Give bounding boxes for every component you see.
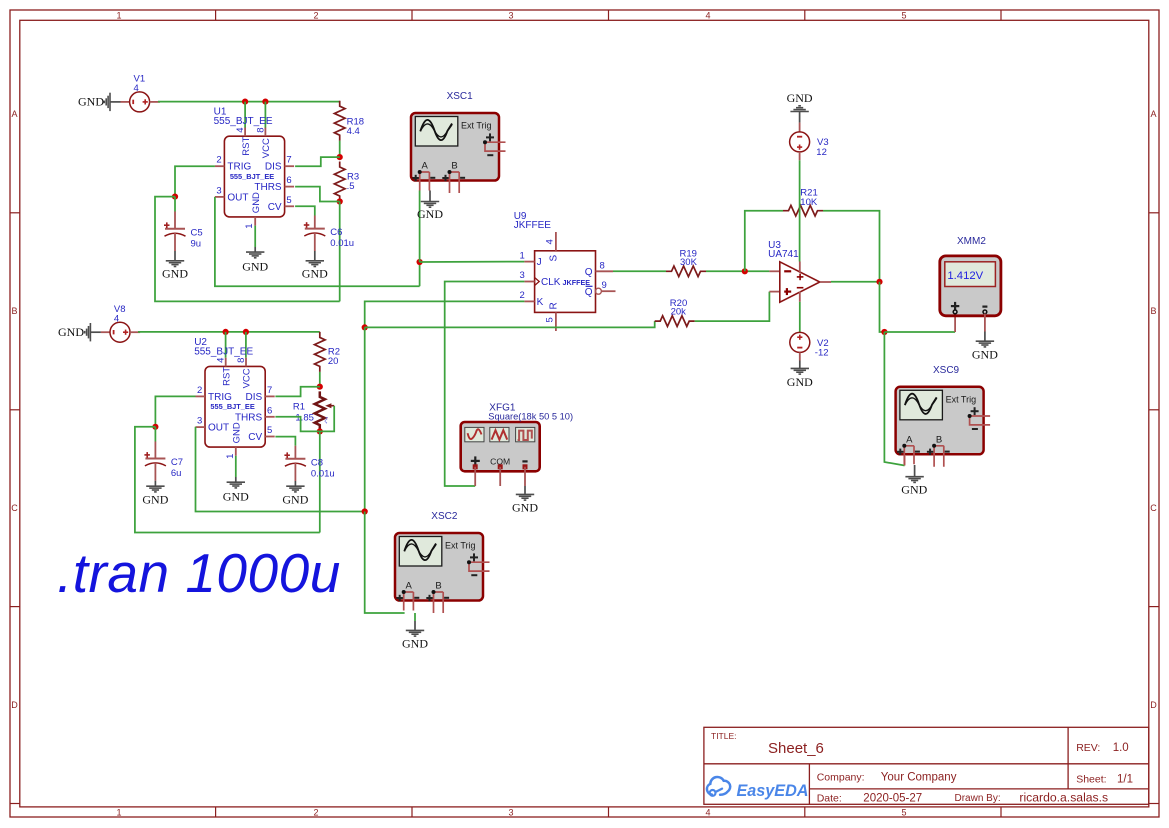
svg-text:1: 1	[116, 807, 121, 817]
wire XSC1 A- to ground	[429, 191, 431, 202]
junction output	[876, 279, 882, 285]
wire gnd stem U2	[235, 477, 237, 482]
wire CV to C6	[295, 206, 315, 215]
svg-text:1.412V: 1.412V	[947, 270, 983, 282]
resistor R21	[783, 205, 823, 216]
svg-text:555_BJT_EE: 555_BJT_EE	[194, 346, 253, 357]
svg-text:Q: Q	[585, 287, 593, 298]
svg-text:A: A	[406, 581, 413, 592]
svg-text:A: A	[11, 109, 17, 119]
junction pin8 U2	[243, 329, 249, 335]
svg-text:D: D	[11, 700, 18, 710]
svg-text:4: 4	[216, 358, 227, 363]
pin C8 negative	[294, 463, 296, 481]
svg-text:20k: 20k	[671, 307, 687, 318]
pin C6 negative	[314, 233, 316, 251]
wire OUT U1 run	[215, 197, 420, 286]
ground above V3	[790, 106, 808, 112]
svg-text:GND: GND	[251, 192, 262, 213]
svg-text:B: B	[435, 581, 441, 592]
svg-text:5: 5	[901, 807, 906, 817]
pin C7 positive	[154, 442, 156, 459]
pin V3 negative	[799, 123, 801, 133]
svg-text:GND: GND	[787, 91, 813, 105]
svg-text:GND: GND	[58, 325, 84, 339]
svg-text:5: 5	[545, 317, 556, 322]
svg-text:C8: C8	[311, 457, 323, 468]
svg-text:GND: GND	[282, 493, 308, 507]
voltage source V2	[790, 332, 810, 352]
svg-text:Square(18k 50 5 10): Square(18k 50 5 10)	[488, 412, 573, 422]
junction pin4 U2	[223, 329, 229, 335]
svg-text:GND: GND	[162, 267, 188, 281]
junction R1 bottom	[317, 428, 323, 434]
pin XSC9 A+	[904, 456, 906, 466]
pin op-amp non-inverting	[769, 291, 779, 293]
capacitor C6	[304, 222, 326, 236]
junction J node	[417, 259, 423, 265]
svg-text:3: 3	[508, 11, 513, 21]
wire R21 left	[745, 211, 783, 272]
wire pin1 U1 to ground	[254, 226, 256, 247]
svg-text:Ext Trig: Ext Trig	[461, 121, 492, 131]
oscilloscope XSC9	[896, 387, 991, 467]
wire K node to R20	[365, 321, 655, 327]
svg-text:Q: Q	[585, 267, 593, 278]
ground under C5	[166, 261, 184, 267]
IC U2 555_BJT_EE	[196, 358, 275, 456]
svg-text:1: 1	[225, 454, 236, 459]
wire to RST pin	[244, 102, 246, 128]
svg-text:REV:: REV:	[1076, 742, 1100, 754]
svg-text:1.0: 1.0	[1113, 742, 1129, 754]
svg-text:EasyEDA: EasyEDA	[737, 782, 809, 800]
svg-text:2: 2	[313, 11, 318, 21]
svg-text:GND: GND	[142, 493, 168, 507]
svg-text:OUT: OUT	[227, 192, 248, 203]
svg-text:R: R	[549, 302, 560, 309]
junction pin4 U1	[242, 99, 248, 105]
wire CLK to XFG1	[445, 282, 525, 487]
svg-text:1: 1	[244, 223, 255, 228]
wire R19 to op-amp - input	[706, 270, 769, 272]
wire gnd stem V2	[799, 361, 801, 369]
junction TRIG U2/C7	[152, 424, 158, 430]
resistor R18	[334, 101, 345, 141]
resistor R2	[314, 332, 325, 372]
svg-text:3: 3	[197, 416, 202, 427]
svg-text:6: 6	[286, 175, 291, 186]
flip-flop U9 JKFFEE	[524, 232, 615, 331]
svg-text:4: 4	[545, 239, 556, 244]
svg-text:XSC9: XSC9	[933, 365, 960, 376]
pin C7 negative	[154, 463, 156, 481]
Qbar overline	[586, 285, 593, 287]
svg-text:XSC2: XSC2	[431, 511, 458, 522]
svg-text:VCC: VCC	[242, 368, 253, 388]
ground under C7	[146, 486, 164, 492]
ground under U2 pin1	[227, 482, 245, 488]
pin XFG1 +	[474, 467, 476, 486]
svg-text:555_BJT_EE: 555_BJT_EE	[214, 116, 273, 127]
wire gnd stem V3	[799, 112, 801, 123]
junction XSC2 node	[362, 508, 368, 514]
wire XSC2 A- to gnd stem	[414, 613, 416, 621]
svg-text:CLK: CLK	[541, 277, 561, 288]
oscilloscope XSC2	[395, 533, 490, 613]
svg-text:555_BJT_EE: 555_BJT_EE	[230, 172, 274, 181]
wire TRIG down	[175, 166, 215, 196]
svg-text:VCC: VCC	[261, 138, 272, 158]
svg-text:ξ: ξ	[325, 418, 329, 425]
pin C6 positive	[314, 216, 316, 229]
wire TRIG U2 down	[155, 396, 195, 426]
wire to J pin	[420, 261, 525, 263]
svg-text:4.4: 4.4	[347, 126, 360, 137]
svg-text:GND: GND	[242, 260, 268, 274]
op-amp U3 UA741	[780, 262, 831, 303]
wire CV U2 to C8	[275, 437, 295, 446]
wire V1 to R18	[158, 101, 340, 103]
wire op-amp output	[831, 281, 880, 283]
wire R20 to op-amp + input	[695, 292, 770, 322]
svg-text:GND: GND	[223, 490, 249, 504]
wire Q to R19	[613, 270, 666, 272]
wire junction to C5	[174, 197, 176, 212]
svg-text:20: 20	[328, 356, 339, 367]
function generator XFG1	[461, 422, 540, 471]
pin op-amp inverting	[769, 270, 779, 272]
svg-text:THRS: THRS	[254, 182, 282, 193]
svg-text:30K: 30K	[680, 257, 698, 268]
svg-text:B: B	[11, 306, 17, 316]
svg-text:B: B	[936, 434, 942, 445]
svg-text:JKFFEE: JKFFEE	[514, 220, 552, 231]
svg-text:GND: GND	[512, 501, 538, 515]
svg-text:GND: GND	[901, 483, 927, 497]
multimeter XMM2	[940, 256, 1001, 316]
svg-text:THRS: THRS	[235, 412, 263, 423]
svg-text:C6: C6	[330, 227, 342, 238]
pin XFG1 -	[524, 467, 526, 486]
svg-text:B: B	[1150, 306, 1156, 316]
wire op-amp V- to V2	[799, 302, 801, 333]
junction meter node	[881, 329, 887, 335]
svg-text:3: 3	[508, 807, 513, 817]
wire R18 to junction	[339, 141, 341, 157]
ground under XSC2	[406, 630, 424, 636]
svg-text:0.01u: 0.01u	[330, 238, 354, 249]
pin XFG1 COM	[499, 467, 501, 486]
ground under XFG1	[516, 494, 534, 500]
pin C8 positive	[294, 446, 296, 459]
svg-text:555_BJT_EE: 555_BJT_EE	[210, 402, 254, 411]
wire to VCC pin	[264, 102, 266, 128]
svg-text:9u: 9u	[191, 238, 202, 249]
EasyEDA logo	[707, 777, 809, 800]
svg-text:TITLE:: TITLE:	[711, 731, 737, 741]
wire XSC2 gnd stem	[414, 621, 416, 630]
svg-text:12: 12	[816, 147, 827, 158]
svg-text:3: 3	[520, 270, 525, 281]
wire TRIG U2 loop	[135, 427, 320, 533]
oscilloscope XSC1	[411, 113, 506, 193]
ground port at V8	[85, 323, 91, 341]
pin XMM2 negative	[984, 314, 986, 332]
wire to XMM2 +	[884, 331, 955, 333]
svg-text:GND: GND	[232, 422, 243, 443]
potentiometer R1 wiper arrow	[328, 405, 335, 407]
voltage source V8	[110, 322, 130, 342]
wire to VCC pin U2	[245, 332, 247, 358]
wire R1 wiper loop	[320, 406, 334, 432]
svg-text:2: 2	[520, 290, 525, 301]
svg-text:2: 2	[216, 155, 221, 166]
svg-text:-12: -12	[815, 348, 829, 359]
svg-text:7: 7	[267, 385, 272, 396]
wire C6 to ground	[314, 251, 316, 260]
wire DIS to R18/R3 node	[295, 157, 340, 166]
pin XMM2 positive	[954, 314, 956, 333]
svg-text:CV: CV	[248, 432, 262, 443]
svg-text:4: 4	[134, 83, 139, 94]
wire DIS U2 to R2/R1 node	[275, 387, 319, 397]
resistor R3	[334, 162, 345, 202]
wire gnd stem V8	[90, 331, 101, 333]
pin C5 positive	[174, 212, 176, 229]
svg-text:Ext Trig: Ext Trig	[946, 394, 977, 404]
svg-text:S: S	[549, 255, 560, 262]
wire XSC1 A+ down	[419, 191, 421, 263]
svg-text:B: B	[451, 161, 457, 172]
svg-text:0.01u: 0.01u	[311, 468, 335, 479]
pin V8 negative	[101, 331, 110, 333]
wire K node down to XSC2 node	[364, 327, 366, 511]
svg-text:8: 8	[236, 358, 247, 363]
svg-text:GND: GND	[302, 267, 328, 281]
svg-text:XSC1: XSC1	[447, 91, 474, 102]
svg-text:RST: RST	[221, 367, 232, 386]
svg-text:9: 9	[602, 280, 607, 291]
svg-text:JKFFEE: JKFFEE	[563, 278, 591, 287]
svg-text:RST: RST	[241, 137, 252, 156]
svg-text:Your Company: Your Company	[881, 771, 957, 783]
svg-text:4: 4	[235, 127, 246, 132]
svg-text:A: A	[422, 161, 429, 172]
wire R1 node down	[319, 431, 321, 532]
svg-text:10K: 10K	[800, 197, 818, 208]
ground under C6	[306, 261, 324, 267]
junction TRIG/C5	[172, 194, 178, 200]
svg-text:K: K	[537, 297, 544, 308]
wire junction to C7	[154, 427, 156, 442]
svg-text:GND: GND	[402, 637, 428, 651]
svg-text:6u: 6u	[171, 468, 182, 479]
wire gnd stem V1	[110, 101, 121, 103]
svg-text:XMM2: XMM2	[957, 236, 986, 247]
wire down to XSC9	[884, 332, 904, 466]
svg-text:Company:: Company:	[817, 771, 865, 783]
svg-text:UA741: UA741	[768, 249, 799, 260]
svg-text:2020-05-27: 2020-05-27	[863, 792, 922, 804]
resistor R19	[666, 266, 706, 277]
svg-text:4: 4	[705, 807, 710, 817]
svg-text:1: 1	[116, 11, 121, 21]
svg-text:Drawn By:: Drawn By:	[955, 793, 1001, 804]
IC U1 555_BJT_EE	[215, 128, 294, 226]
wire R21 right to output	[823, 211, 880, 282]
svg-text:GND: GND	[78, 95, 104, 109]
wire THRS U2 to R1 node	[275, 417, 319, 432]
svg-text:Ext Trig: Ext Trig	[445, 541, 476, 551]
voltage source V3	[790, 132, 810, 152]
pin V8 positive	[130, 331, 140, 333]
svg-text:A: A	[906, 434, 913, 445]
wire C5 to ground	[174, 251, 176, 260]
svg-text:D: D	[1150, 700, 1157, 710]
svg-text:5: 5	[286, 195, 291, 206]
potentiometer R1	[315, 391, 325, 431]
resistor R20	[655, 316, 695, 327]
capacitor C8	[284, 452, 306, 466]
wire C8 to ground	[294, 481, 296, 486]
junction K node	[362, 324, 368, 330]
wire OUT U2 run	[196, 427, 365, 512]
wire XSC9 A- to ground	[914, 465, 916, 476]
voltage source V1	[130, 92, 150, 112]
wire K down	[365, 301, 525, 327]
svg-text:Date:: Date:	[817, 792, 842, 804]
svg-text:5: 5	[267, 425, 272, 436]
svg-text:C: C	[1150, 503, 1157, 513]
svg-text:GND: GND	[417, 207, 443, 221]
svg-text:3: 3	[216, 185, 221, 196]
junction inverting input	[742, 268, 748, 274]
svg-text:GND: GND	[787, 375, 813, 389]
ground under U1 pin1	[246, 252, 264, 258]
junction R2/R1/DIS	[317, 384, 323, 390]
svg-text:.5: .5	[347, 181, 355, 192]
wire up to J node	[419, 262, 421, 286]
svg-text:C5: C5	[191, 227, 203, 238]
wire XMM2 to ground	[984, 332, 986, 341]
svg-text:C7: C7	[171, 457, 183, 468]
ground under XSC1	[421, 202, 439, 208]
wire C7 to ground	[154, 481, 156, 486]
wire to RST pin U2	[225, 332, 227, 358]
svg-text:C: C	[11, 503, 18, 513]
wire R3 node down	[339, 202, 341, 302]
ground port at V1	[104, 93, 110, 111]
title block	[704, 727, 1149, 804]
pin V1 negative	[121, 101, 130, 103]
junction pin8 U1	[262, 99, 268, 105]
junction R3/THRS	[337, 198, 343, 204]
svg-text:7: 7	[286, 155, 291, 166]
svg-text:4: 4	[705, 11, 710, 21]
capacitor C7	[144, 452, 166, 466]
pin C5 negative	[174, 233, 176, 251]
svg-text:5: 5	[901, 11, 906, 21]
ground under V2	[791, 368, 809, 374]
svg-text:2: 2	[197, 385, 202, 396]
svg-text:OUT: OUT	[208, 423, 229, 434]
svg-text:1.85: 1.85	[295, 412, 314, 423]
ground under XMM2	[976, 341, 994, 347]
wire R2 to junction	[319, 372, 321, 387]
wire THRS to R3 node	[295, 187, 340, 202]
svg-text:.tran 1000u: .tran 1000u	[57, 542, 341, 604]
svg-text:ricardo.a.salas.s: ricardo.a.salas.s	[1019, 791, 1108, 805]
wire TRIG loop to R3 node	[155, 197, 340, 302]
pin V3 positive	[799, 152, 801, 160]
svg-text:R1: R1	[293, 401, 305, 412]
svg-text:Sheet:: Sheet:	[1076, 773, 1106, 785]
junction R18/R3/DIS	[337, 154, 343, 160]
pin V1 positive	[150, 101, 160, 103]
pin V2 negative	[799, 352, 801, 360]
svg-text:1/1: 1/1	[1117, 773, 1133, 785]
svg-text:J: J	[537, 257, 542, 268]
svg-text:GND: GND	[972, 348, 998, 362]
ground under XSC9	[905, 477, 923, 483]
capacitor C5	[164, 222, 186, 236]
wire gnd stem U1	[254, 247, 256, 252]
svg-text:2: 2	[313, 807, 318, 817]
wire XSC2 node to A+	[365, 512, 405, 614]
wire V3 to op-amp V+	[799, 160, 801, 261]
svg-text:6: 6	[267, 405, 272, 416]
wire V8 to R2	[138, 331, 320, 333]
ground under C8	[286, 486, 304, 492]
svg-text:8: 8	[600, 260, 605, 271]
svg-text:CV: CV	[268, 202, 282, 213]
wire pin1 U2 to ground	[235, 456, 237, 477]
svg-text:1: 1	[520, 250, 525, 261]
svg-text:A: A	[1150, 109, 1156, 119]
svg-text:Sheet_6: Sheet_6	[768, 740, 824, 757]
wire XFG1 - to ground	[524, 486, 526, 494]
svg-text:8: 8	[255, 127, 266, 132]
svg-text:4: 4	[114, 313, 119, 324]
wire output down	[880, 282, 885, 332]
